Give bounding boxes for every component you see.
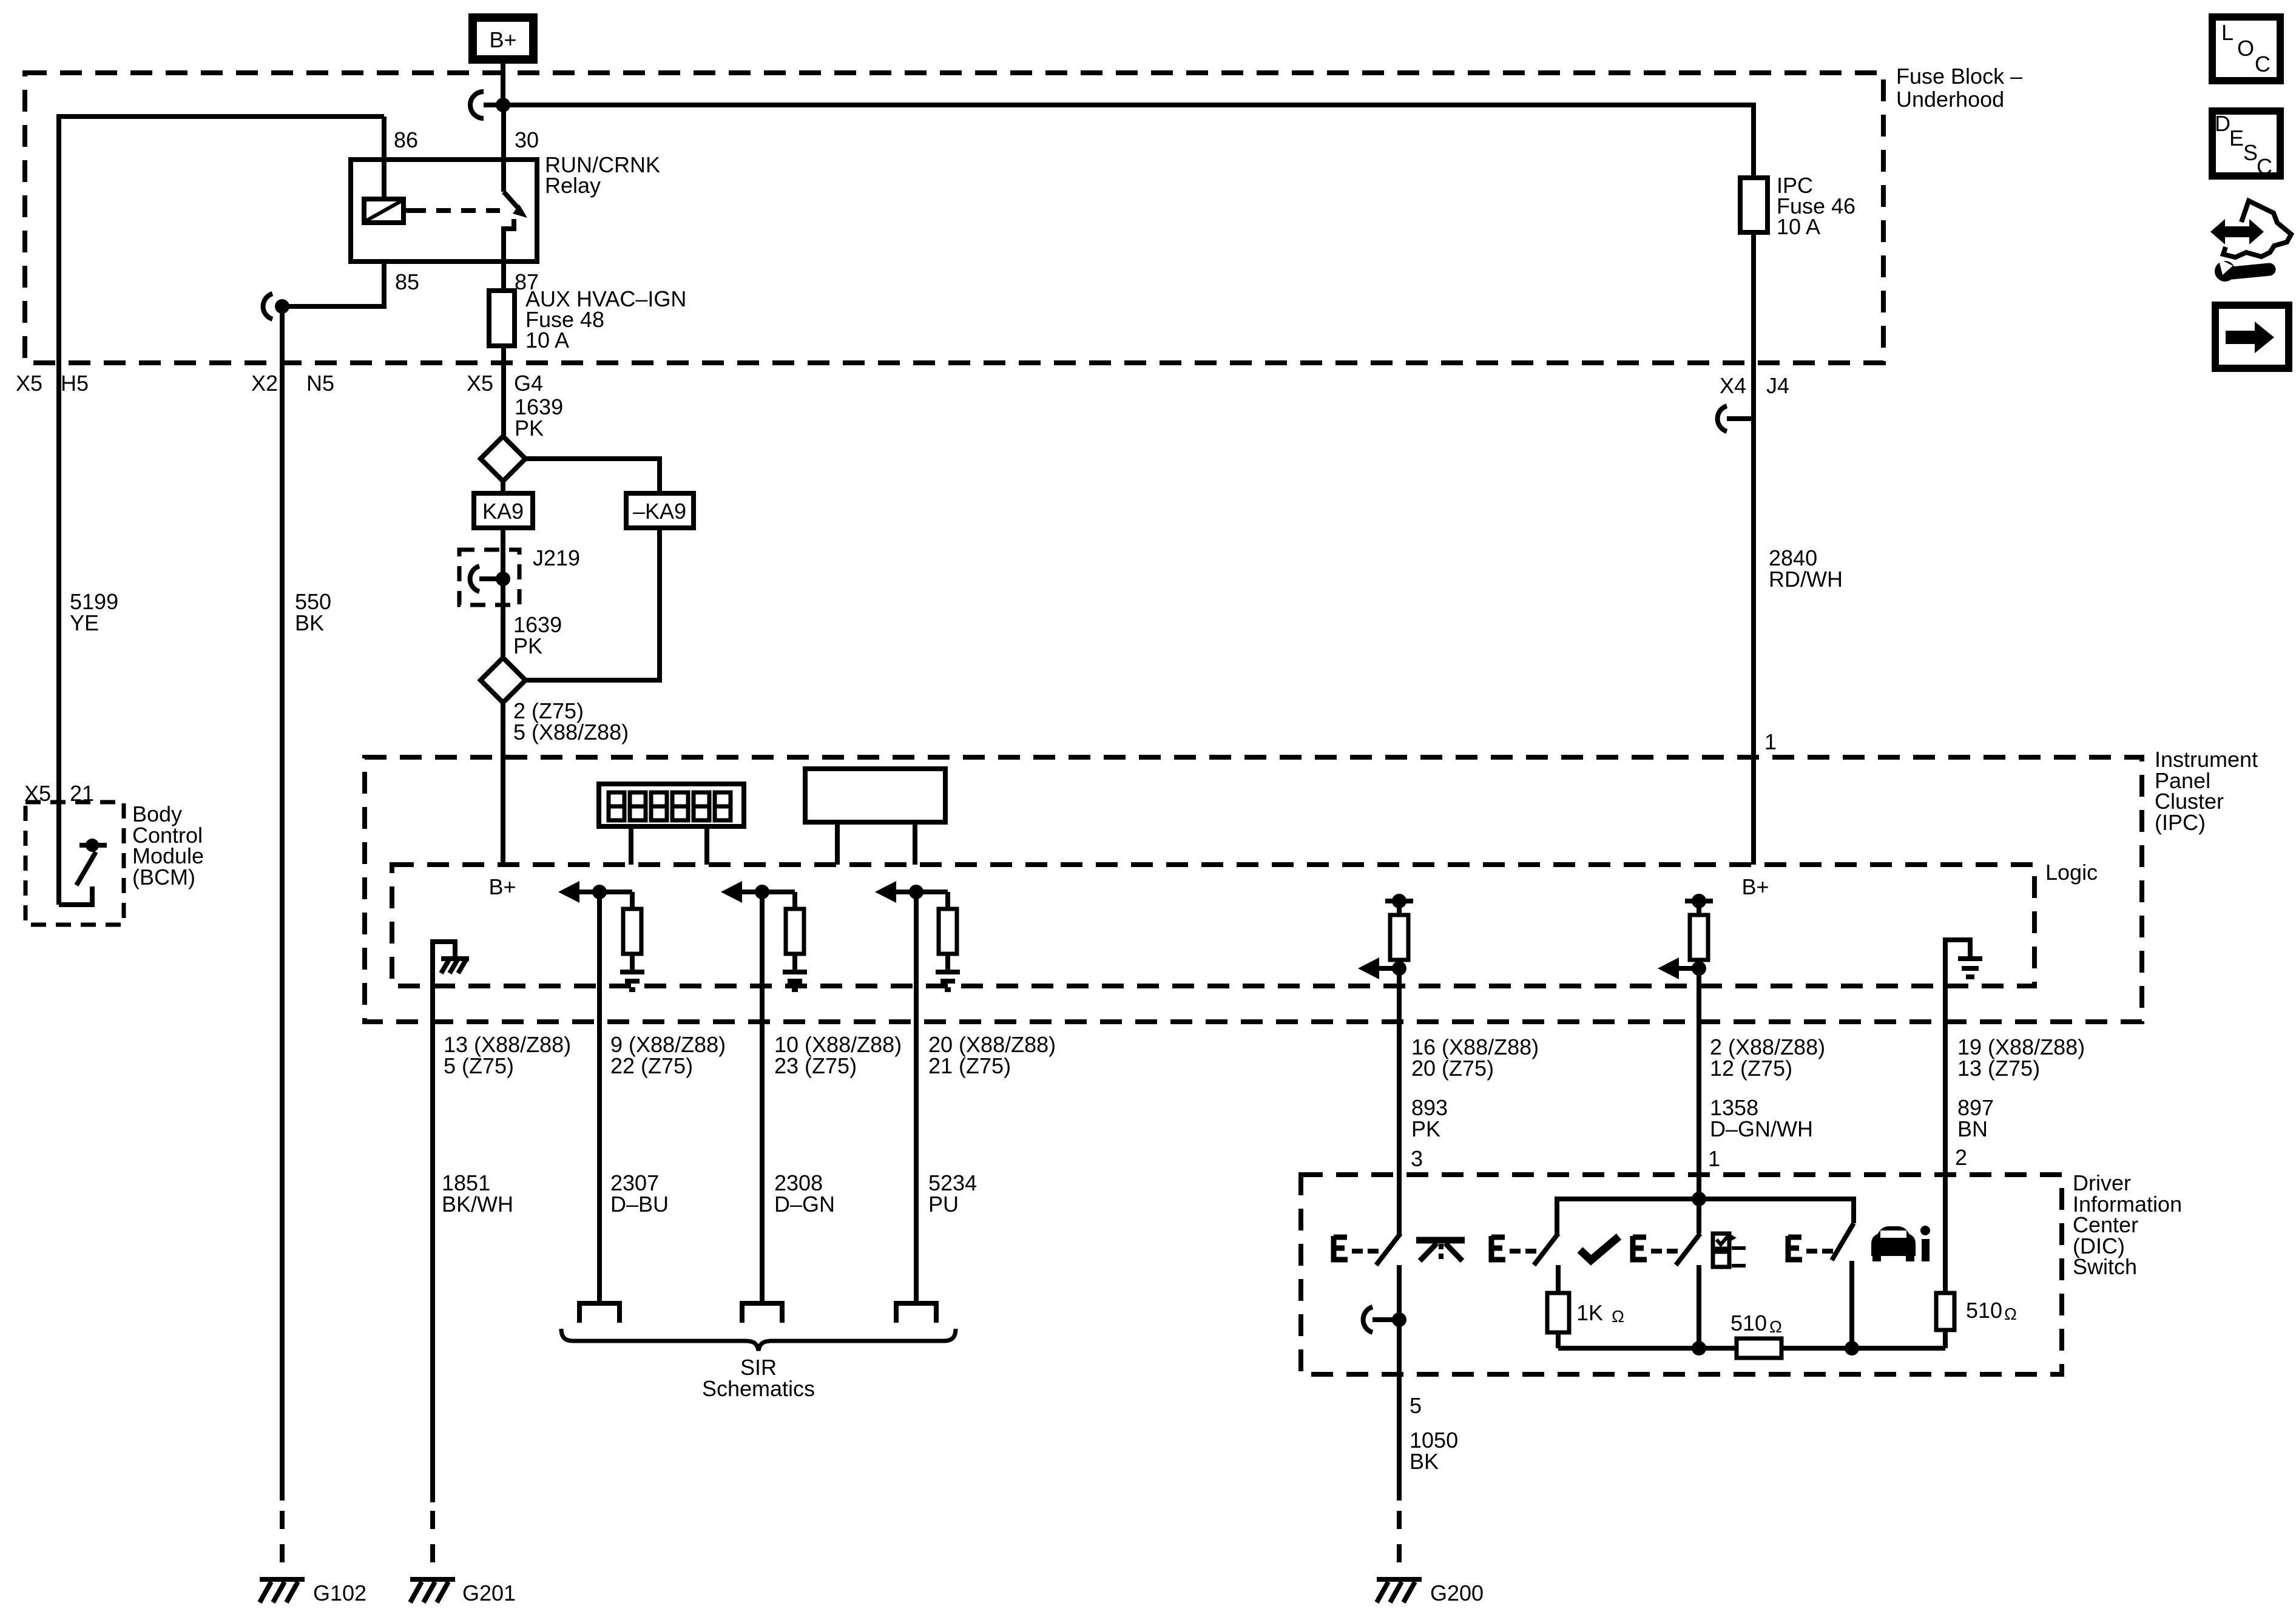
wire to KA9 bbox=[501, 481, 505, 493]
terminal to SIR wire 2307 bbox=[579, 1303, 620, 1323]
wire label 1639 PK lower bbox=[513, 612, 562, 658]
wire DIC top rail bbox=[1557, 1199, 1854, 1235]
node B+ junction bbox=[496, 98, 510, 112]
svg-text:Underhood: Underhood bbox=[1896, 87, 2004, 112]
switch 2 check bbox=[1491, 1234, 1558, 1265]
connector at 85 drop bbox=[263, 294, 272, 319]
svg-text:Switch: Switch bbox=[2073, 1254, 2137, 1279]
wire 1358 down bbox=[1697, 968, 1701, 1199]
svg-text:Ω: Ω bbox=[1612, 1307, 1624, 1326]
icon DESC box bbox=[2212, 111, 2280, 179]
svg-text:PU: PU bbox=[928, 1192, 959, 1217]
relay switch blade bbox=[504, 192, 527, 262]
svg-text:1K: 1K bbox=[1576, 1300, 1603, 1325]
svg-text:L: L bbox=[2221, 20, 2234, 45]
wire display leg right bbox=[704, 826, 709, 865]
node bottom rail right bbox=[1845, 1341, 1859, 1355]
sense line motif pin 9 bbox=[558, 881, 644, 990]
bypass branch wire lower bbox=[525, 528, 660, 680]
wire 1050 BK out of DIC bbox=[1397, 1374, 1402, 1501]
svg-text:3: 3 bbox=[1411, 1146, 1423, 1171]
ground G102 bbox=[260, 1579, 366, 1605]
node rail junction bbox=[1692, 1192, 1706, 1206]
icon checkmark bbox=[1580, 1237, 1619, 1260]
svg-text:RD/WH: RD/WH bbox=[1769, 567, 1843, 592]
svg-text:PK: PK bbox=[513, 633, 542, 658]
svg-text:1: 1 bbox=[1708, 1146, 1720, 1171]
relay coil bbox=[364, 199, 411, 223]
svg-text:X2: X2 bbox=[251, 371, 278, 396]
svg-text:30: 30 bbox=[515, 127, 539, 152]
instrument panel cluster IPC box bbox=[365, 747, 2258, 1022]
connector at B+ junction bbox=[470, 92, 484, 118]
svg-text:S: S bbox=[2243, 140, 2258, 165]
wire label 1639 PK upper bbox=[515, 394, 563, 441]
svg-text:23 (Z75): 23 (Z75) bbox=[774, 1053, 857, 1078]
svg-text:5 (Z75): 5 (Z75) bbox=[444, 1053, 514, 1078]
ground G201 bbox=[410, 1579, 516, 1605]
wire relay pin 30 bbox=[501, 105, 506, 192]
connector X4 J4 bbox=[1718, 406, 1727, 431]
icon forward arrow box bbox=[2215, 305, 2289, 368]
svg-text:G201: G201 bbox=[462, 1581, 516, 1605]
wire 893 PK down bbox=[1397, 968, 1402, 1235]
connector inside DIC bbox=[1363, 1307, 1373, 1332]
wire display leg left bbox=[629, 826, 633, 865]
wire switch 4 lower bbox=[1849, 1261, 1854, 1348]
wire 2840 RD/WH from fuse 46 to IPC bbox=[1751, 232, 1756, 757]
wire label 550 BK bbox=[295, 589, 331, 635]
svg-text:(IPC): (IPC) bbox=[2155, 810, 2206, 835]
svg-text:G200: G200 bbox=[1430, 1581, 1484, 1605]
svg-text:D–GN/WH: D–GN/WH bbox=[1710, 1116, 1813, 1141]
resistor 1K bbox=[1547, 1265, 1624, 1348]
svg-text:Fuse Block –: Fuse Block – bbox=[1896, 64, 2022, 89]
svg-text:BN: BN bbox=[1957, 1116, 1988, 1141]
svg-text:85: 85 bbox=[395, 269, 419, 294]
wire 2307 down bbox=[597, 892, 602, 1302]
sense line motif pin 10 bbox=[721, 881, 807, 990]
wire 897 BN down bbox=[1943, 989, 1948, 1235]
wire 1 into DIC bbox=[1697, 1175, 1701, 1234]
svg-text:22 (Z75): 22 (Z75) bbox=[610, 1053, 693, 1078]
wire label 2840 RD/WH bbox=[1769, 545, 1843, 592]
DIC pin number labels bbox=[1411, 1145, 1967, 1171]
node bottom rail left bbox=[1692, 1341, 1706, 1355]
icon car info bbox=[1871, 1226, 1930, 1261]
bypass branch wire bbox=[525, 459, 660, 493]
svg-text:J4: J4 bbox=[1766, 373, 1789, 398]
wire 5234 down bbox=[914, 892, 919, 1302]
node 85 junction bbox=[275, 299, 289, 314]
svg-text:20 (Z75): 20 (Z75) bbox=[1411, 1056, 1494, 1081]
pull-up motif pin 2 bbox=[1658, 894, 1713, 979]
switch inside BCM bbox=[59, 839, 107, 905]
wire module leg right bbox=[913, 822, 917, 865]
seven segment display bbox=[599, 784, 744, 826]
wire label 5199 YE bbox=[70, 589, 118, 635]
fuse block - underhood box bbox=[25, 64, 2022, 363]
svg-text:C: C bbox=[2257, 154, 2272, 179]
wire left branch to BCM bbox=[59, 116, 384, 905]
icon LOC box bbox=[2212, 17, 2280, 81]
svg-text:KA9: KA9 bbox=[482, 499, 524, 524]
pull-up motif pin 16 bbox=[1358, 894, 1413, 979]
svg-text:21 (Z75): 21 (Z75) bbox=[928, 1053, 1011, 1078]
body control module BCM box bbox=[25, 802, 204, 925]
svg-text:G102: G102 bbox=[313, 1581, 366, 1605]
wire switch 1 lower bbox=[1397, 1265, 1402, 1374]
display module box bbox=[805, 769, 945, 822]
ground G200 bbox=[1377, 1579, 1484, 1605]
wire 897 into DIC bbox=[1943, 1175, 1948, 1293]
icon replace part wrench bbox=[2210, 201, 2291, 282]
svg-text:D–BU: D–BU bbox=[610, 1192, 669, 1217]
svg-text:86: 86 bbox=[394, 127, 418, 152]
battery feed B+ bbox=[473, 18, 533, 59]
svg-text:X4: X4 bbox=[1720, 373, 1746, 398]
ground inside logic right bbox=[1945, 940, 1982, 989]
switch 1 trip bbox=[1334, 1234, 1400, 1265]
svg-text:BK: BK bbox=[1410, 1449, 1439, 1474]
svg-text:Ω: Ω bbox=[1769, 1317, 1782, 1336]
sense line motif pin 20 bbox=[875, 881, 960, 990]
svg-text:E: E bbox=[2229, 126, 2244, 150]
relay dashed actuator link bbox=[411, 208, 500, 213]
svg-text:5: 5 bbox=[1410, 1393, 1422, 1418]
svg-text:2: 2 bbox=[1955, 1145, 1967, 1170]
wire module leg left bbox=[835, 822, 840, 865]
svg-text:YE: YE bbox=[70, 610, 99, 635]
wire 1851 dashed to ground bbox=[430, 1511, 435, 1578]
icon menu list bbox=[1713, 1234, 1746, 1267]
svg-text:O: O bbox=[2237, 36, 2254, 61]
switch 4 vehicle info bbox=[1788, 1223, 1854, 1260]
svg-text:N5: N5 bbox=[306, 371, 334, 396]
svg-text:5 (X88/Z88): 5 (X88/Z88) bbox=[513, 720, 629, 744]
wire 550 BK vertical bbox=[280, 306, 285, 1501]
icon road trip bbox=[1416, 1240, 1465, 1261]
pin labels 2 (Z75) 5 (X88/Z88) bbox=[513, 698, 629, 744]
svg-text:B+: B+ bbox=[489, 27, 516, 52]
wire dashed to G200 bbox=[1397, 1511, 1402, 1578]
driver information center DIC switch box bbox=[1301, 1170, 2182, 1374]
wire labels left column bbox=[442, 1170, 977, 1217]
wire relay pin 86 bbox=[382, 116, 387, 201]
splice J219 bbox=[459, 545, 580, 605]
wire DIC bottom rail right bbox=[1781, 1346, 1945, 1351]
svg-text:1: 1 bbox=[1764, 729, 1777, 754]
wire relay pin 85 to X2 N5 bbox=[282, 262, 384, 306]
wire 893 into DIC bbox=[1397, 1175, 1402, 1235]
brace SIR schematics bbox=[561, 1329, 956, 1351]
wire DIC bottom rail left bbox=[1558, 1346, 1737, 1351]
BCM pin labels X5 21 bbox=[24, 781, 94, 806]
fuse AUX HVAC-IGN Fuse 48 bbox=[489, 286, 686, 353]
svg-text:Schematics: Schematics bbox=[702, 1376, 815, 1401]
svg-text:PK: PK bbox=[1411, 1116, 1440, 1141]
wire 87 to fuse 48 bbox=[501, 262, 506, 293]
logic box bbox=[392, 860, 2098, 986]
wire 2840 stub into logic bbox=[1751, 757, 1756, 865]
svg-text:12 (Z75): 12 (Z75) bbox=[1710, 1056, 1792, 1081]
fuse IPC Fuse 46 bbox=[1740, 173, 1855, 239]
wire 2308 down bbox=[760, 892, 765, 1302]
svg-text:J219: J219 bbox=[533, 545, 580, 570]
svg-text:13 (Z75): 13 (Z75) bbox=[1957, 1056, 2040, 1081]
connector diamond lower bbox=[481, 658, 525, 703]
svg-text:B+: B+ bbox=[1741, 874, 1769, 899]
svg-text:BK/WH: BK/WH bbox=[442, 1192, 513, 1217]
wire into IPC bbox=[501, 703, 505, 865]
IPC bottom pin labels bbox=[444, 1032, 2085, 1081]
svg-text:C: C bbox=[2255, 52, 2271, 76]
switch 3 menu bbox=[1633, 1199, 1700, 1265]
fuse KA9 bbox=[474, 493, 533, 528]
ground chassis inside logic left bbox=[433, 942, 469, 989]
svg-text:510: 510 bbox=[1966, 1298, 2002, 1323]
svg-text:X5: X5 bbox=[467, 371, 493, 396]
relay RUN/CRNK bbox=[351, 127, 660, 294]
svg-text:–KA9: –KA9 bbox=[633, 499, 686, 524]
svg-text:X5: X5 bbox=[16, 371, 42, 396]
svg-text:H5: H5 bbox=[61, 371, 89, 396]
resistor 510 horizontal bbox=[1730, 1311, 1782, 1358]
wire fuse48 down through fuse block edge bbox=[501, 346, 506, 436]
wire labels right column bbox=[1411, 1095, 1994, 1141]
terminal to SIR wire 5234 bbox=[896, 1303, 936, 1323]
svg-text:B+: B+ bbox=[488, 874, 516, 899]
svg-text:10 A: 10 A bbox=[1777, 214, 1820, 239]
svg-text:21: 21 bbox=[70, 781, 94, 806]
wire switch 3 lower bbox=[1697, 1265, 1701, 1348]
svg-text:D–GN: D–GN bbox=[774, 1192, 835, 1217]
svg-text:PK: PK bbox=[515, 416, 544, 441]
wire B+ drop bbox=[501, 59, 505, 105]
svg-text:Ω: Ω bbox=[2004, 1305, 2017, 1323]
connector diamond upper bbox=[481, 436, 525, 481]
wire 550 BK dashed to ground bbox=[280, 1511, 285, 1578]
svg-text:Relay: Relay bbox=[545, 173, 601, 198]
svg-text:510: 510 bbox=[1730, 1311, 1767, 1335]
wire top rail to IPC fuse bbox=[503, 105, 1754, 178]
svg-text:Logic: Logic bbox=[2045, 860, 2098, 885]
svg-text:BK: BK bbox=[295, 610, 324, 635]
connector row labels at fuse block bottom bbox=[16, 371, 1789, 398]
wire 1851 BK/WH down bbox=[430, 989, 435, 1502]
svg-text:D: D bbox=[2215, 111, 2230, 136]
fuse -KA9 bbox=[626, 493, 694, 528]
svg-text:10 A: 10 A bbox=[525, 328, 569, 353]
terminal to SIR wire 2308 bbox=[742, 1303, 782, 1323]
svg-text:(BCM): (BCM) bbox=[132, 865, 195, 890]
wire KA9 down bbox=[501, 528, 505, 658]
svg-text:G4: G4 bbox=[514, 371, 543, 396]
wire label 1050 BK bbox=[1410, 1428, 1458, 1474]
svg-text:X5: X5 bbox=[24, 781, 51, 806]
resistor 510 right bbox=[1936, 1293, 2017, 1348]
